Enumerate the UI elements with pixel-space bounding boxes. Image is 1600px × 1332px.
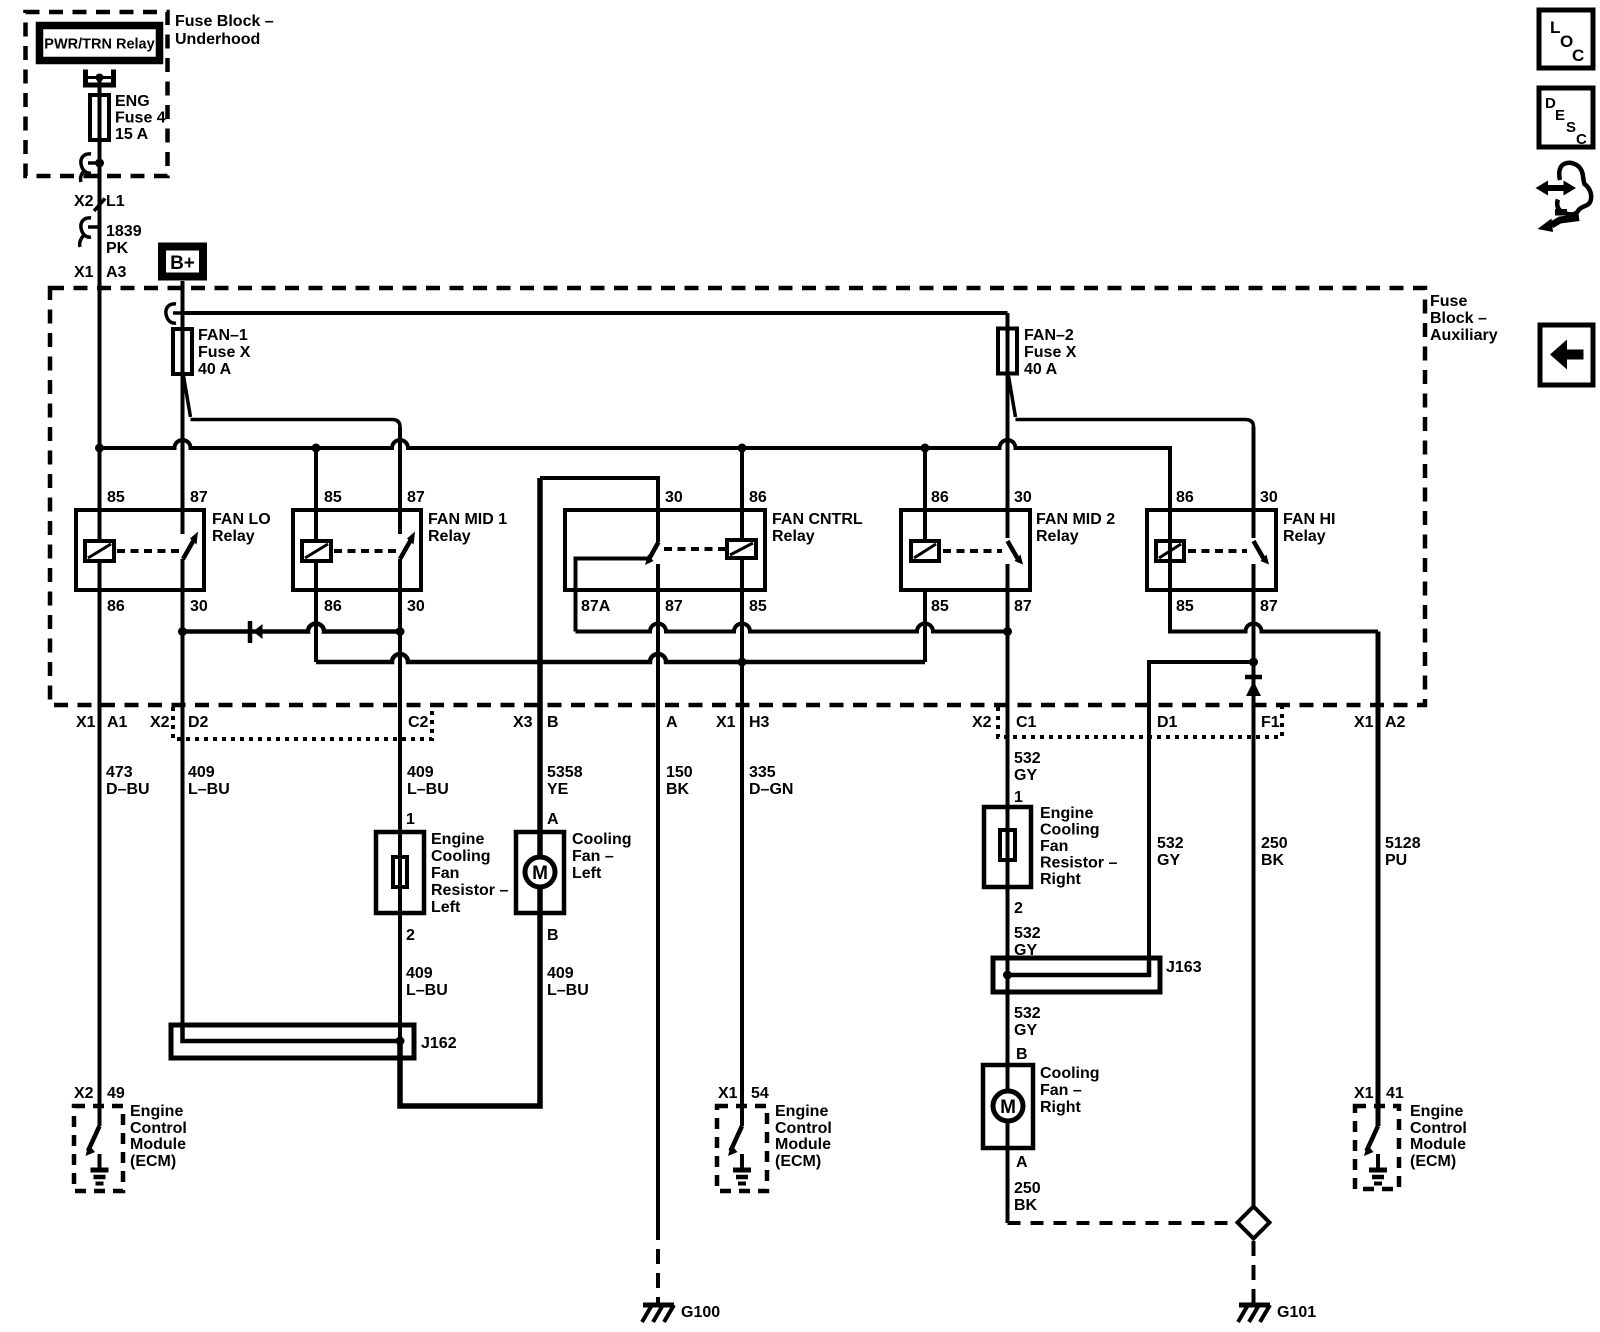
svg-text:532: 532: [1014, 750, 1041, 767]
svg-text:X1: X1: [716, 714, 736, 731]
svg-text:Control: Control: [130, 1120, 187, 1137]
svg-text:GY: GY: [1157, 852, 1180, 869]
node bus at FAN CNTRL 86: [738, 444, 747, 453]
svg-text:D2: D2: [188, 714, 209, 731]
svg-text:86: 86: [107, 598, 125, 615]
svg-text:G100: G100: [681, 1304, 720, 1321]
svg-text:409: 409: [188, 764, 215, 781]
wire stub FAN CNTRL 86: [740, 448, 744, 540]
fuse FAN-1 Fuse X 40 A: [173, 327, 251, 378]
svg-text:Resistor –: Resistor –: [1040, 855, 1117, 872]
svg-text:87: 87: [665, 598, 683, 615]
svg-text:30: 30: [1014, 489, 1032, 506]
main bus wire with hops: [100, 440, 1171, 510]
wire fan right A down: [1006, 1122, 1010, 1223]
svg-text:85: 85: [1176, 598, 1194, 615]
wire label 250 BK (F1): [1261, 835, 1288, 869]
wire label 150 BK: [666, 764, 693, 798]
svg-text:Right: Right: [1040, 1099, 1082, 1116]
relay contact symbol (fuse block internal): [86, 70, 114, 86]
svg-text:150: 150: [666, 764, 693, 781]
svg-text:(ECM): (ECM): [1410, 1153, 1456, 1170]
svg-text:335: 335: [749, 764, 776, 781]
svg-text:A2: A2: [1385, 714, 1406, 731]
wire FAN MID 2 85 down to link: [923, 590, 927, 662]
resistor Engine Cooling Fan Resistor - Left: [376, 811, 508, 944]
svg-text:X2: X2: [972, 714, 992, 731]
svg-text:85: 85: [749, 598, 767, 615]
svg-text:30: 30: [1260, 489, 1278, 506]
svg-text:B: B: [1016, 1046, 1028, 1063]
connector X2 L1 labels: [74, 193, 125, 210]
relay FAN CNTRL box: [565, 489, 863, 615]
svg-text:D1: D1: [1157, 714, 1178, 731]
svg-text:86: 86: [931, 489, 949, 506]
wire from B+ down to FAN-1 fuse: [181, 281, 185, 534]
wire dashed to ground G100: [656, 1249, 660, 1303]
relay FAN MID 2 box: [901, 489, 1115, 615]
svg-text:Fuse X: Fuse X: [1024, 344, 1077, 361]
splice J162: [171, 1025, 457, 1058]
svg-text:PK: PK: [106, 240, 129, 257]
svg-text:Fuse: Fuse: [1430, 293, 1467, 310]
wire diagonal branch from FAN-1 fuse: [184, 376, 191, 417]
svg-text:87: 87: [1260, 598, 1278, 615]
connector X2/L1 slash: [94, 199, 105, 212]
svg-text:30: 30: [665, 489, 683, 506]
node bus at FAN MID 2 86: [921, 444, 930, 453]
svg-text:49: 49: [107, 1085, 125, 1102]
relay FAN MID 2 switch blade: [1008, 541, 1024, 565]
wire FAN MID 1 pin 87 stub: [398, 427, 402, 534]
svg-text:X1: X1: [1354, 714, 1374, 731]
wire FAN CNTRL pin 87 down: [656, 564, 660, 1240]
node FAN MID 1 30: [396, 627, 405, 636]
svg-text:FAN MID 1: FAN MID 1: [428, 511, 507, 528]
svg-text:30: 30: [407, 598, 425, 615]
connector labels bottom row: [76, 714, 1406, 731]
svg-text:C: C: [1572, 46, 1584, 65]
svg-text:85: 85: [931, 598, 949, 615]
svg-text:S: S: [1566, 119, 1576, 136]
svg-text:A: A: [1016, 1154, 1028, 1171]
svg-text:Fan –: Fan –: [572, 848, 614, 865]
wire FAN-2 to FAN HI pin 30: [1016, 420, 1254, 428]
svg-text:41: 41: [1386, 1085, 1404, 1102]
relay FAN CNTRL switch blade: [645, 542, 659, 565]
svg-text:M: M: [1000, 1097, 1016, 1118]
svg-text:Engine: Engine: [775, 1103, 828, 1120]
wire FAN CNTRL pin 30 loop: [540, 478, 658, 542]
svg-text:87A: 87A: [581, 598, 611, 615]
relay FAN CNTRL coil dashed link: [664, 547, 725, 551]
svg-text:A1: A1: [107, 714, 128, 731]
relay FAN MID 1 coil: [302, 541, 331, 561]
B+ power box: [162, 247, 203, 277]
svg-text:GY: GY: [1014, 1022, 1037, 1039]
wire from relay to ENG fuse: [98, 78, 102, 96]
node FAN HI 87: [1249, 658, 1258, 667]
svg-text:Control: Control: [775, 1120, 832, 1137]
svg-text:40 A: 40 A: [198, 361, 232, 378]
svg-text:D–BU: D–BU: [106, 781, 150, 798]
svg-text:Engine: Engine: [1040, 805, 1093, 822]
svg-text:X1: X1: [1354, 1085, 1374, 1102]
connector X2 dotted box right: [998, 707, 1282, 737]
wire from FAN-2 fuse down: [1006, 313, 1010, 538]
svg-text:Left: Left: [572, 865, 602, 882]
relay FAN MID 2 coil: [911, 541, 939, 561]
motor Cooling Fan - Right: [983, 1065, 1100, 1171]
wire label 250 BK below fan right: [1014, 1180, 1041, 1214]
svg-text:X2: X2: [150, 714, 170, 731]
wire FAN MID 1 pin 86 down: [314, 561, 318, 662]
svg-text:B: B: [547, 927, 559, 944]
svg-text:473: 473: [106, 764, 133, 781]
wire FAN MID 1 pin 30 down to resistor and J162: [398, 559, 402, 1041]
svg-text:B: B: [547, 714, 559, 731]
svg-text:250: 250: [1014, 1180, 1041, 1197]
diode on 250 BK wire: [1245, 677, 1262, 696]
wire FAN HI pin 87 down: [1252, 564, 1256, 1207]
wire dashed to splice diamond: [1008, 1221, 1238, 1225]
wire cooling fan left B loop to J162: [400, 886, 540, 1106]
svg-text:YE: YE: [547, 781, 569, 798]
svg-text:Module: Module: [1410, 1136, 1466, 1153]
relay FAN HI coil: [1156, 541, 1184, 561]
svg-text:Auxiliary: Auxiliary: [1430, 327, 1498, 344]
svg-text:409: 409: [547, 965, 574, 982]
svg-text:532: 532: [1014, 925, 1041, 942]
svg-text:Fuse Block –: Fuse Block –: [175, 13, 274, 30]
svg-text:15 A: 15 A: [115, 126, 149, 143]
node junction below fuse with connector curl: [81, 154, 104, 182]
svg-text:J163: J163: [1166, 959, 1202, 976]
node FAN CNTRL 85 on link: [738, 658, 747, 667]
node FAN MID 2 87: [1003, 627, 1012, 636]
ECM right switch blade: [1364, 1126, 1378, 1156]
relay FAN HI switch blade: [1254, 541, 1270, 565]
svg-text:Fuse X: Fuse X: [198, 344, 251, 361]
svg-text:B+: B+: [170, 253, 195, 274]
wire FAN HI 87 to D1: [1149, 662, 1254, 975]
wire label 532 GY below resistor right: [1014, 925, 1041, 959]
svg-text:Relay: Relay: [772, 528, 815, 545]
connector X2 dotted box left: [173, 707, 432, 739]
wire bus B+ to FAN-2 fuse: [183, 311, 1008, 315]
svg-text:J162: J162: [421, 1035, 457, 1052]
svg-text:C: C: [1576, 131, 1587, 148]
svg-text:Engine: Engine: [431, 831, 484, 848]
svg-text:(ECM): (ECM): [775, 1153, 821, 1170]
wire FAN LO pin 30 down: [181, 559, 185, 1025]
svg-text:L–BU: L–BU: [188, 781, 230, 798]
svg-text:1: 1: [406, 811, 415, 828]
svg-text:Resistor –: Resistor –: [431, 882, 508, 899]
svg-text:Relay: Relay: [212, 528, 255, 545]
svg-text:PWR/TRN Relay: PWR/TRN Relay: [44, 37, 154, 53]
svg-text:87: 87: [190, 489, 208, 506]
ground inside ECM right: [1369, 1154, 1387, 1184]
svg-text:FAN–2: FAN–2: [1024, 327, 1074, 344]
svg-text:Fan –: Fan –: [1040, 1082, 1082, 1099]
wire label 5358 YE: [547, 764, 583, 798]
wire FAN HI pin 30 stub: [1252, 427, 1256, 538]
svg-text:409: 409: [406, 965, 433, 982]
wire label 409 L-BU below fan left: [547, 965, 589, 999]
svg-text:ENG: ENG: [115, 93, 150, 110]
svg-text:A: A: [547, 811, 559, 828]
wire 5358 YE down to cooling fan left: [537, 478, 543, 858]
wire FAN LO 30 to FAN MID 1 30: [183, 624, 401, 632]
svg-text:87: 87: [1014, 598, 1032, 615]
svg-text:L1: L1: [106, 193, 125, 210]
svg-text:5358: 5358: [547, 764, 583, 781]
relay FAN HI coil dashed link: [1188, 549, 1247, 553]
svg-text:85: 85: [324, 489, 342, 506]
svg-text:Fan: Fan: [431, 865, 459, 882]
svg-text:E: E: [1555, 107, 1565, 124]
svg-text:Relay: Relay: [1036, 528, 1079, 545]
ground G101: [1238, 1304, 1316, 1322]
svg-text:Cooling: Cooling: [1040, 822, 1100, 839]
connector curl at B+ bus junction: [166, 304, 183, 323]
wire label 409 L-BU (C2): [407, 764, 449, 798]
wire label 335 D-GN: [749, 764, 793, 798]
relay FAN MID 1 coil dashed link: [334, 549, 396, 553]
svg-text:Left: Left: [431, 899, 461, 916]
fuse ENG Fuse 4 15 A: [90, 93, 166, 143]
svg-text:532: 532: [1157, 835, 1184, 852]
svg-text:G101: G101: [1277, 1304, 1316, 1321]
Fuse Block - Underhood dashed box: [26, 12, 274, 176]
node FAN LO 30: [178, 627, 187, 636]
relay FAN CNTRL 87A pivot line: [576, 559, 651, 632]
svg-text:A: A: [666, 714, 678, 731]
svg-text:BK: BK: [1014, 1197, 1038, 1214]
icon LOC box: [1539, 10, 1593, 68]
svg-text:X2: X2: [74, 193, 94, 210]
svg-text:532: 532: [1014, 1005, 1041, 1022]
wire label 5128 PU: [1385, 835, 1421, 869]
svg-text:FAN CNTRL: FAN CNTRL: [772, 511, 863, 528]
svg-text:A3: A3: [106, 264, 127, 281]
relay FAN LO coil: [85, 541, 114, 561]
svg-text:86: 86: [324, 598, 342, 615]
diode on 30-30 link: [250, 621, 263, 643]
svg-text:F1: F1: [1261, 714, 1280, 731]
svg-text:BK: BK: [666, 781, 690, 798]
svg-text:L–BU: L–BU: [547, 982, 589, 999]
svg-text:5128: 5128: [1385, 835, 1421, 852]
svg-text:Module: Module: [130, 1136, 186, 1153]
svg-text:X3: X3: [513, 714, 533, 731]
svg-text:40 A: 40 A: [1024, 361, 1058, 378]
svg-text:Cooling: Cooling: [1040, 1065, 1100, 1082]
ECM middle switch blade: [728, 1126, 742, 1156]
svg-text:Block –: Block –: [1430, 310, 1487, 327]
wire FAN MID 2 pin 87 down: [1006, 564, 1010, 1090]
wire FAN CNTRL pin 85 down: [740, 558, 744, 1126]
wire dashed to ground G101: [1252, 1241, 1256, 1303]
wire label 409 L-BU (D2): [188, 764, 230, 798]
svg-text:H3: H3: [749, 714, 770, 731]
svg-text:86: 86: [749, 489, 767, 506]
svg-text:GY: GY: [1014, 767, 1037, 784]
relay FAN MID 1 switch blade: [400, 532, 415, 560]
splice diamond G101: [1238, 1207, 1270, 1239]
wire stub FAN MID 2 86: [923, 448, 927, 541]
svg-text:L: L: [1550, 18, 1560, 37]
ECM middle dashed box X1 54: [717, 1085, 832, 1191]
wire label 532 GY (D1): [1157, 835, 1184, 869]
svg-text:1: 1: [1014, 789, 1023, 806]
svg-text:M: M: [532, 863, 548, 884]
svg-text:409: 409: [407, 764, 434, 781]
ground G100: [642, 1304, 720, 1322]
connector X1/A3 labels: [74, 264, 127, 281]
wire label 473 D-BU: [106, 764, 150, 798]
svg-text:87: 87: [407, 489, 425, 506]
wire 5128 PU down to ECM: [1376, 632, 1381, 1127]
wire below ENG fuse: [98, 95, 102, 541]
Fuse Block - Auxiliary dashed box: [50, 288, 1498, 705]
wire label 409 L-BU below resistor left: [406, 965, 448, 999]
resistor Engine Cooling Fan Resistor - Right: [984, 789, 1117, 917]
svg-text:C2: C2: [408, 714, 429, 731]
svg-text:FAN MID 2: FAN MID 2: [1036, 511, 1115, 528]
ECM left switch blade: [86, 1126, 100, 1156]
svg-text:X2: X2: [74, 1085, 94, 1102]
PWR/TRN Relay box: [40, 26, 160, 61]
svg-text:Relay: Relay: [428, 528, 471, 545]
splice J163: [993, 958, 1202, 992]
fuse FAN-2 Fuse X 40 A: [998, 327, 1077, 378]
relay FAN LO switch blade: [183, 532, 198, 560]
svg-text:Engine: Engine: [1410, 1103, 1463, 1120]
svg-text:FAN–1: FAN–1: [198, 327, 248, 344]
svg-text:PU: PU: [1385, 852, 1407, 869]
svg-text:2: 2: [1014, 900, 1023, 917]
svg-text:BK: BK: [1261, 852, 1285, 869]
svg-text:Right: Right: [1040, 871, 1082, 888]
relay FAN LO box: [76, 489, 271, 615]
svg-text:Fuse 4: Fuse 4: [115, 110, 166, 127]
svg-text:Underhood: Underhood: [175, 31, 260, 48]
wire FAN CNTRL 87A to FAN MID 2 87: [576, 624, 1008, 632]
node bus at FAN LO 85: [95, 444, 104, 453]
ground inside ECM middle: [733, 1154, 751, 1184]
wire 86/85 link FAN MID 1 to FAN MID 2: [316, 654, 925, 662]
wire label 1839 PK: [106, 223, 142, 257]
svg-text:Cooling: Cooling: [572, 831, 632, 848]
icon harness view curvy symbol: [1536, 163, 1592, 232]
relay FAN MID 2 coil dashed link: [943, 549, 1002, 553]
svg-text:L–BU: L–BU: [407, 781, 449, 798]
wire FAN-1 to FAN MID 1 pin 87: [191, 420, 401, 428]
svg-text:X1: X1: [718, 1085, 738, 1102]
svg-text:Control: Control: [1410, 1120, 1467, 1137]
svg-text:1839: 1839: [106, 223, 142, 240]
icon back arrow box: [1540, 325, 1593, 385]
svg-text:30: 30: [190, 598, 208, 615]
motor Cooling Fan - Left: [516, 811, 632, 944]
svg-text:FAN LO: FAN LO: [212, 511, 271, 528]
svg-text:Fan: Fan: [1040, 838, 1068, 855]
svg-text:(ECM): (ECM): [130, 1153, 176, 1170]
svg-text:Module: Module: [775, 1136, 831, 1153]
wire FAN LO pin 86 down: [98, 561, 102, 1126]
wire FAN HI pin 85 to X1 A2: [1170, 510, 1378, 632]
wire label 532 GY (C1): [1014, 750, 1041, 784]
connector curl at 1839 PK: [80, 218, 100, 247]
svg-text:250: 250: [1261, 835, 1288, 852]
relay FAN HI box: [1147, 489, 1335, 615]
svg-text:X1: X1: [76, 714, 96, 731]
node bus at FAN MID 1 85: [312, 444, 321, 453]
svg-text:FAN HI: FAN HI: [1283, 511, 1335, 528]
svg-text:2: 2: [406, 927, 415, 944]
svg-text:D–GN: D–GN: [749, 781, 793, 798]
svg-text:54: 54: [751, 1085, 769, 1102]
ECM left dashed box X2 49: [74, 1085, 187, 1191]
wire diagonal branch from FAN-2 fuse: [1009, 376, 1016, 417]
icon DESC box: [1539, 88, 1593, 148]
svg-text:C1: C1: [1016, 714, 1037, 731]
relay FAN LO coil dashed link: [117, 549, 179, 553]
svg-text:L–BU: L–BU: [406, 982, 448, 999]
svg-text:Cooling: Cooling: [431, 848, 491, 865]
svg-text:Engine: Engine: [130, 1103, 183, 1120]
svg-text:Relay: Relay: [1283, 528, 1326, 545]
svg-text:85: 85: [107, 489, 125, 506]
wire stub FAN MID 1 85: [314, 448, 318, 541]
svg-text:X1: X1: [74, 264, 94, 281]
svg-text:86: 86: [1176, 489, 1194, 506]
wire label 532 GY below J163: [1014, 1005, 1041, 1063]
ECM right dashed box X1 41: [1354, 1085, 1467, 1189]
ground inside ECM left: [91, 1154, 109, 1184]
relay FAN MID 1 box: [293, 489, 507, 615]
relay FAN CNTRL coil: [727, 540, 756, 558]
